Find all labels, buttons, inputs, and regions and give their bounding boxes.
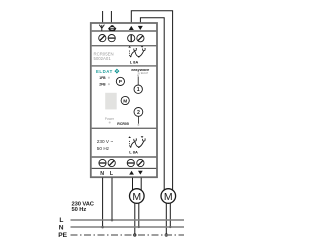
button M <box>121 96 129 104</box>
antenna wire 2 <box>110 11 112 22</box>
junction M1 PE <box>133 233 136 236</box>
svg-text:Power: Power <box>105 117 115 121</box>
wire node 2 to LED <box>137 116 139 123</box>
PE bus <box>71 234 185 236</box>
svg-text:50 Hz: 50 Hz <box>72 207 87 213</box>
node 1 <box>134 85 142 93</box>
svg-text:L 8A: L 8A <box>129 150 138 155</box>
button P <box>116 77 124 85</box>
L bus <box>71 219 185 221</box>
wire M1 to PE bus <box>134 203 136 236</box>
svg-text:1FB: 1FB <box>99 76 106 80</box>
svg-text:ELDAT: ELDAT <box>96 69 113 74</box>
external antenna socket symbol <box>108 25 116 30</box>
LED 2FB <box>108 83 110 85</box>
junction M1 N <box>138 226 140 228</box>
motor M1 <box>130 189 145 204</box>
svg-text:2FB: 2FB <box>99 83 106 87</box>
terminal screw bottom L <box>108 159 115 166</box>
terminal screw top down <box>137 35 144 42</box>
easywave logo <box>131 67 150 75</box>
LED 1FB <box>108 77 110 79</box>
label window <box>105 93 117 110</box>
terminal screw top ant2 <box>108 35 115 42</box>
up arrow label (bottom) <box>129 171 134 175</box>
down arrow label (top) <box>138 26 143 30</box>
svg-text:by ELDAT: by ELDAT <box>138 72 149 75</box>
terminal screw bottom N <box>99 159 106 166</box>
svg-text:M: M <box>164 191 173 203</box>
svg-text:M: M <box>132 191 141 203</box>
svg-text:N: N <box>59 224 64 231</box>
wire M1 to N bus <box>138 203 140 227</box>
down arrow label (bottom) <box>138 171 143 175</box>
wire bottom up-terminal to motor M1 <box>132 178 134 191</box>
terminal screw top up <box>128 35 135 42</box>
svg-text:L: L <box>59 217 63 224</box>
wire top down-terminal to motor M2 (inner loop) <box>140 18 164 190</box>
wire N terminal to N bus <box>102 178 104 227</box>
wire top up-terminal to motor M2 (outer loop) <box>131 11 172 190</box>
svg-text:L 8A: L 8A <box>130 59 139 64</box>
relay contact symbol (top) <box>128 46 145 58</box>
LED channel 1 <box>137 74 139 76</box>
svg-text:PE: PE <box>58 232 67 239</box>
wire LED to node 1 <box>137 77 139 85</box>
wire L terminal to L bus <box>111 178 113 220</box>
svg-text:2: 2 <box>137 110 140 116</box>
N bus <box>71 226 185 228</box>
ELDAT logo <box>96 69 119 74</box>
terminal screw bottom down <box>137 159 144 166</box>
up arrow label (top) <box>129 26 134 30</box>
junction M2 N <box>169 226 171 228</box>
svg-text:1: 1 <box>137 87 140 93</box>
svg-text:easywave: easywave <box>131 67 150 72</box>
section divider lines <box>92 31 157 168</box>
junction L <box>111 219 114 222</box>
motor M2 <box>161 189 176 204</box>
svg-text:50 Hz: 50 Hz <box>97 146 110 151</box>
antenna wire 1 <box>102 11 104 22</box>
svg-text:230 V ~: 230 V ~ <box>97 139 114 144</box>
relay contact symbol (bottom) <box>128 136 145 148</box>
antenna symbol <box>99 25 104 31</box>
node 2 <box>134 108 143 117</box>
wire M2 to PE bus <box>165 203 167 236</box>
LED power <box>109 121 111 123</box>
junction M2 PE <box>165 233 168 236</box>
wire M2 to N bus <box>169 203 171 227</box>
terminal screw bottom up <box>127 159 134 166</box>
svg-text:RCR05: RCR05 <box>117 122 129 126</box>
LED channel 2 <box>137 124 139 126</box>
wire bottom down-terminal to motor M1 <box>140 178 142 191</box>
receiver module U1 outline <box>91 23 157 177</box>
svg-text:5002A01: 5002A01 <box>94 56 112 61</box>
svg-text:M: M <box>123 98 127 104</box>
svg-text:N: N <box>100 171 104 177</box>
junction N <box>101 226 104 229</box>
terminal screw top antenna <box>99 35 106 42</box>
